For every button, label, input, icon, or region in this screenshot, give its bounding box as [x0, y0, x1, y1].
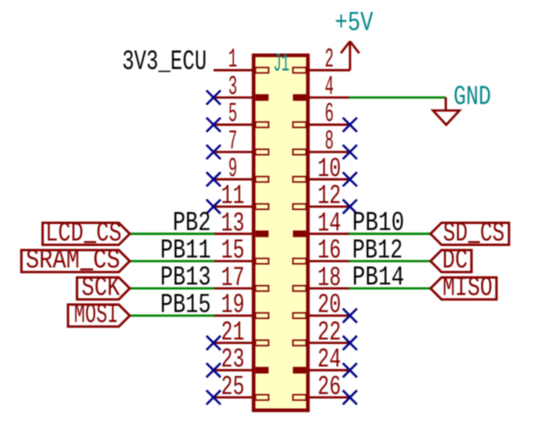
svg-text:11: 11 [221, 182, 245, 212]
svg-text:15: 15 [221, 237, 245, 267]
svg-text:24: 24 [318, 346, 342, 376]
svg-text:PB11: PB11 [160, 236, 211, 266]
no-connect flag pin 11 [206, 200, 220, 214]
no-connect flag pin 3 [206, 90, 220, 104]
hierarchical label MOSI [68, 301, 130, 331]
no-connect flag pin 21 [206, 336, 220, 350]
svg-text:8: 8 [325, 128, 334, 158]
wire pin 4 to GND [349, 96, 446, 98]
connector J1 pin 14 [293, 231, 350, 238]
connector J1 pin 11 [214, 204, 269, 209]
wire pin 16 to DC [349, 260, 431, 262]
connector J1 pin 12 [293, 204, 350, 209]
svg-text:9: 9 [228, 155, 237, 185]
svg-text:14: 14 [318, 209, 342, 239]
wire pin 13 to LCD_CS [130, 233, 215, 235]
connector J1 pin 15 [214, 258, 269, 263]
power symbol +5V [341, 41, 359, 70]
svg-text:12: 12 [318, 182, 342, 212]
wire pin 2 to +5V corner [349, 69, 350, 71]
connector J1 pin 22 [293, 340, 350, 345]
svg-text:MOSI: MOSI [74, 301, 118, 331]
svg-text:3: 3 [228, 73, 237, 103]
svg-text:17: 17 [221, 264, 245, 294]
no-connect flag pin 22 [343, 336, 357, 350]
svg-text:3V3_ECU: 3V3_ECU [122, 47, 207, 78]
hierarchical label SRAM_CS [21, 247, 129, 277]
hierarchical label LCD_CS [43, 219, 130, 249]
svg-text:6: 6 [325, 100, 334, 130]
svg-text:10: 10 [318, 155, 342, 185]
svg-text:+5V: +5V [335, 9, 374, 39]
svg-text:1: 1 [228, 46, 237, 76]
svg-text:PB12: PB12 [352, 236, 403, 266]
wire pin 17 to SCK [130, 287, 215, 289]
no-connect flag pin 20 [343, 309, 357, 323]
connector J1 pin 3 [214, 94, 269, 101]
svg-text:SD CS: SD CS [443, 219, 505, 249]
wire pin 18 to MISO [349, 287, 431, 289]
no-connect flag pin 10 [343, 172, 357, 186]
connector J1 pin 24 [293, 367, 350, 374]
svg-text:PB14: PB14 [352, 264, 404, 294]
svg-text:PB2: PB2 [173, 209, 211, 239]
connector J1 pin 1 [214, 68, 269, 73]
no-connect flag pin 26 [343, 390, 357, 404]
connector J1 pin 20 [293, 313, 350, 318]
svg-text:18: 18 [318, 264, 342, 294]
svg-text:MISO: MISO [443, 274, 493, 304]
no-connect flag pin 25 [206, 390, 220, 404]
svg-text:LCD CS: LCD CS [45, 219, 121, 249]
svg-text:4: 4 [325, 73, 334, 103]
connector J1 pin 26 [293, 395, 350, 400]
connector J1 pin 2 [293, 68, 350, 73]
ground symbol GND [433, 98, 460, 125]
svg-text:J1: J1 [273, 48, 289, 78]
no-connect flag pin 9 [206, 172, 220, 186]
svg-text:SCK: SCK [82, 274, 121, 304]
svg-text:SRAM CS: SRAM CS [26, 247, 120, 277]
svg-text:GND: GND [454, 83, 492, 113]
svg-text:2: 2 [325, 46, 334, 76]
svg-text:13: 13 [221, 209, 245, 239]
svg-text:20: 20 [318, 291, 342, 321]
connector J1 pin 17 [214, 286, 269, 291]
wire pin 19 to MOSI [130, 314, 215, 316]
svg-text:16: 16 [318, 237, 342, 267]
svg-text:25: 25 [221, 373, 245, 403]
hierarchical label DC [431, 247, 472, 277]
hierarchical label SCK [77, 274, 130, 304]
svg-text:7: 7 [228, 128, 237, 158]
hierarchical label SD_CS [431, 219, 510, 249]
svg-text:23: 23 [221, 346, 245, 376]
connector J1 pin 25 [214, 395, 269, 400]
svg-text:21: 21 [221, 318, 245, 348]
hierarchical label MISO [431, 274, 497, 304]
connector J1 pin 6 [293, 122, 350, 127]
connector J1 pin 7 [214, 149, 269, 154]
svg-text:PB10: PB10 [352, 209, 404, 239]
svg-text:26: 26 [318, 373, 342, 403]
svg-text:22: 22 [318, 318, 342, 348]
connector J1 pin 23 [214, 367, 269, 374]
connector J1 pin 18 [293, 286, 350, 291]
no-connect flag pin 8 [343, 145, 357, 159]
connector J1 body [254, 55, 308, 410]
no-connect flag pin 7 [206, 145, 220, 159]
no-connect flag pin 12 [343, 200, 357, 214]
svg-text:5: 5 [228, 100, 237, 130]
connector J1 pin 9 [214, 177, 269, 182]
svg-text:19: 19 [221, 291, 245, 321]
connector J1 pin 4 [293, 94, 350, 101]
connector J1 pin 10 [293, 177, 350, 182]
wire pin 15 to SRAM_CS [130, 260, 215, 262]
svg-text:PB13: PB13 [160, 264, 211, 294]
connector J1 pin 21 [214, 340, 269, 345]
no-connect flag pin 23 [206, 363, 220, 377]
no-connect flag pin 24 [343, 363, 357, 377]
no-connect flag pin 6 [343, 118, 357, 132]
svg-text:DC: DC [442, 247, 467, 277]
wire pin 14 to SD_CS [349, 233, 431, 235]
svg-text:PB15: PB15 [160, 291, 211, 321]
connector J1 pin 5 [214, 122, 269, 127]
no-connect flag pin 5 [206, 118, 220, 132]
connector J1 pin 16 [293, 258, 350, 263]
connector J1 pin 13 [214, 231, 269, 238]
connector J1 pin 8 [293, 149, 350, 154]
connector J1 pin 19 [214, 313, 269, 318]
